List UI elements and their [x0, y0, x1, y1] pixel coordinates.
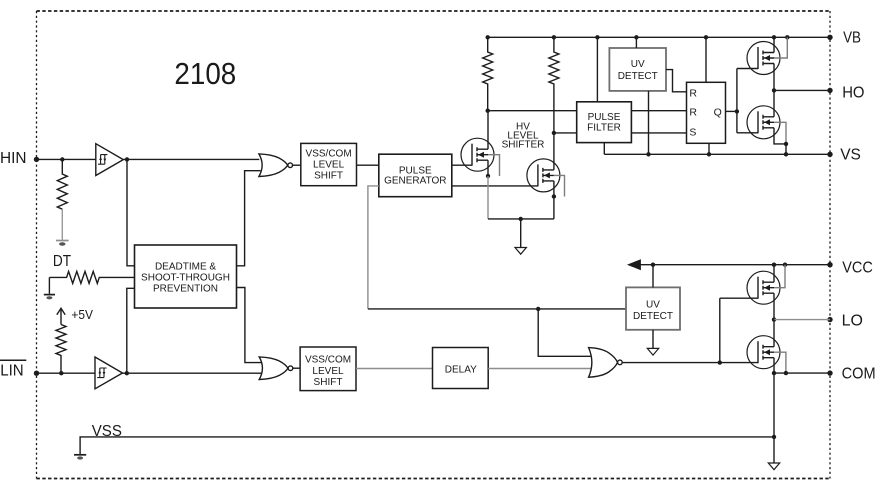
transistor M6 (low-side output lower) — [747, 320, 786, 374]
transistor M2 (HV level shift right) — [527, 133, 565, 219]
svg-text:DETECT: DETECT — [633, 311, 673, 322]
node U2 output junction — [125, 371, 129, 375]
wire COM down to ground — [773, 373, 775, 463]
node U1 output junction — [125, 157, 129, 161]
wire to ground G4 — [520, 219, 522, 247]
block UV detect (high side) — [609, 48, 666, 91]
node Q junction — [735, 109, 739, 113]
wire levelshift1 to pulse generator — [357, 164, 379, 166]
wire NOR3 out to gates — [622, 362, 758, 364]
resistor R3 (LIN pullup) — [56, 325, 66, 374]
wire pulse filter out R — [631, 110, 687, 112]
node COM rail dots — [772, 371, 788, 375]
svg-text:DEADTIME &: DEADTIME & — [155, 262, 216, 273]
resistor R5 (HV pullup right) — [549, 37, 559, 133]
svg-text:VS: VS — [840, 146, 861, 163]
svg-text:VSS/COM: VSS/COM — [306, 149, 352, 160]
ground G4 (open triangle) — [515, 248, 526, 255]
gate NOR3 — [589, 348, 623, 378]
wire latch top to VB rail — [705, 37, 707, 82]
wire DT to ground — [48, 277, 50, 293]
svg-text:VCC: VCC — [842, 260, 873, 277]
transistor M3 (high-side output upper) — [747, 37, 787, 90]
svg-text:LEVEL: LEVEL — [312, 366, 344, 377]
gate NOR1 — [259, 154, 293, 177]
node VSS/COM junction — [772, 435, 776, 439]
wire UV2 bottom to ground — [652, 330, 654, 348]
buffer U2 (LIN Schmitt trigger) — [95, 357, 123, 389]
svg-text:SHIFT: SHIFT — [314, 377, 343, 388]
svg-text:SHIFTER: SHIFTER — [502, 139, 545, 150]
wire pulse gen tap to low side (gray) — [368, 186, 379, 309]
wire LO (gray) — [774, 319, 830, 321]
wire R1 to ground — [61, 209, 63, 240]
svg-text:R: R — [689, 87, 697, 99]
ground G1 — [56, 241, 69, 246]
wire deadtime out2 to NOR2 — [237, 288, 262, 363]
svg-text:GENERATOR: GENERATOR — [384, 176, 446, 187]
svg-text:LO: LO — [842, 313, 863, 330]
ground G2 (DT) — [44, 295, 55, 300]
VCC arrow — [627, 259, 641, 270]
block delay — [433, 348, 489, 389]
ground G6 (open triangle) — [768, 463, 779, 470]
wire gate vertical M5/M6 — [719, 298, 721, 362]
wire levelshift2 to delay (gray) — [356, 368, 433, 370]
svg-text:UV: UV — [646, 300, 660, 311]
pin dot COM — [827, 370, 832, 375]
rail COM — [774, 372, 830, 374]
node VB rail dots — [486, 35, 790, 39]
rail VB top — [488, 36, 830, 38]
svg-text:COM: COM — [842, 365, 876, 382]
svg-text:LIN: LIN — [0, 363, 24, 380]
wire M3 gate lead — [737, 68, 758, 70]
wire delay to NOR3 (gray) — [488, 368, 591, 370]
svg-text:FILTER: FILTER — [587, 123, 621, 134]
svg-text:S: S — [689, 127, 696, 139]
svg-text:DELAY: DELAY — [445, 364, 477, 375]
pin dot VS — [827, 152, 832, 157]
wire LIN input — [37, 372, 96, 374]
wire to UV detect 2 — [368, 308, 626, 310]
svg-text:2108: 2108 — [174, 57, 236, 91]
svg-text:HO: HO — [842, 84, 864, 101]
wire shifter common source — [488, 218, 554, 220]
pin dot VB — [827, 35, 832, 40]
svg-text:UV: UV — [631, 59, 645, 70]
wire pulse gen out1 to M1 gate — [452, 164, 472, 166]
buffer U1 (HIN Schmitt trigger) — [96, 144, 124, 176]
wire NOR2 out — [293, 367, 300, 369]
wire NOR1 out — [293, 164, 301, 166]
block deadtime & shoot-through prevention — [135, 245, 237, 308]
node HO junction — [772, 88, 776, 92]
resistor R1 (HIN pulldown) — [57, 159, 67, 209]
node LO junction — [772, 317, 776, 321]
transistor M4 (high-side output lower) — [747, 90, 788, 154]
wire latch Q to gates — [725, 110, 737, 112]
node R5 bottom junction — [552, 131, 556, 135]
wire R5 node to pulse filter — [554, 132, 577, 134]
resistor R4 (HV pullup left) — [483, 37, 493, 110]
wire deadtime out1 to NOR1 — [237, 171, 261, 266]
wire M5 gate lead — [720, 297, 758, 299]
wire UV1 bottom to VS rail — [648, 91, 650, 154]
block VSS/COM level shift (low side) — [300, 347, 356, 391]
svg-text:DT: DT — [53, 253, 72, 270]
svg-text:R: R — [689, 106, 697, 118]
block pulse filter — [577, 102, 632, 143]
svg-text:VB: VB — [843, 29, 861, 46]
ground G5 (open triangle) — [647, 348, 658, 355]
node R4 bottom junction — [486, 109, 490, 113]
wire UV1 top to VB rail — [635, 37, 637, 48]
svg-text:SHOOT-THROUGH: SHOOT-THROUGH — [141, 273, 230, 284]
pin dot LO — [827, 317, 832, 322]
supply +5V arrow — [57, 308, 65, 324]
block UV detect (low side) — [626, 287, 680, 329]
node NOR3 out junction — [718, 360, 722, 364]
pin dot LIN — [34, 371, 39, 376]
node HIN/R1 junction — [60, 157, 64, 161]
node VCC rail dots — [651, 263, 787, 267]
wire latch bottom to VS rail — [708, 143, 710, 154]
pin label LIN (overlined) — [0, 360, 26, 379]
wire M4 gate lead — [737, 132, 758, 134]
label HV LEVEL SHIFTER — [502, 121, 545, 150]
ground G3 (VSS) — [74, 455, 86, 460]
block RS latch — [687, 82, 726, 143]
svg-text:VSS/COM: VSS/COM — [305, 354, 351, 365]
wire U2 output — [123, 372, 262, 374]
wire HIN input — [37, 158, 97, 160]
wire pulse gen out2 to M2 gate — [452, 185, 538, 187]
svg-text:DETECT: DETECT — [618, 71, 658, 82]
wire U2 out to deadtime box — [127, 288, 135, 373]
wire HO — [774, 89, 830, 91]
gate NOR2 — [259, 357, 293, 380]
wire UV1 out to latch R — [666, 70, 687, 92]
transistor M5 (low-side output upper) — [747, 265, 785, 320]
pin dot HIN — [34, 157, 39, 162]
rail VCC — [640, 264, 831, 266]
wire U1 out to deadtime box — [127, 159, 135, 265]
wire gate vertical M3/M4 — [736, 69, 738, 133]
wire pulse filter top to VB rail — [596, 37, 598, 102]
svg-text:SHIFT: SHIFT — [314, 170, 343, 181]
pin dot VCC — [827, 262, 832, 267]
wire VSS line — [80, 437, 774, 454]
node mid junction — [536, 307, 540, 311]
rail VS — [604, 153, 830, 155]
node VS rail dots — [646, 152, 788, 156]
svg-text:PULSE: PULSE — [588, 112, 621, 123]
svg-text:Q: Q — [714, 107, 722, 119]
pin dot HO — [827, 88, 832, 93]
svg-text:LEVEL: LEVEL — [313, 159, 345, 170]
svg-text:+5V: +5V — [71, 307, 93, 322]
block VSS/COM level shift (high side) — [301, 143, 357, 185]
wire pulse filter bottom to VS rail — [603, 143, 605, 155]
wire junction down to NOR3 — [538, 309, 590, 356]
svg-text:PREVENTION: PREVENTION — [153, 284, 218, 295]
wire R4 node to pulse filter — [488, 110, 577, 112]
wire pulse filter out S — [631, 132, 687, 134]
resistor R2 (DT) — [49, 271, 134, 283]
node LIN/R3 junction — [59, 371, 63, 375]
wire UV2 top to VCC rail — [652, 265, 654, 288]
block pulse generator — [379, 154, 452, 197]
transistor M1 (HV level shift left) — [461, 111, 500, 219]
node common source — [519, 217, 523, 221]
wire U1 output — [123, 158, 259, 160]
svg-text:HIN: HIN — [0, 150, 27, 167]
